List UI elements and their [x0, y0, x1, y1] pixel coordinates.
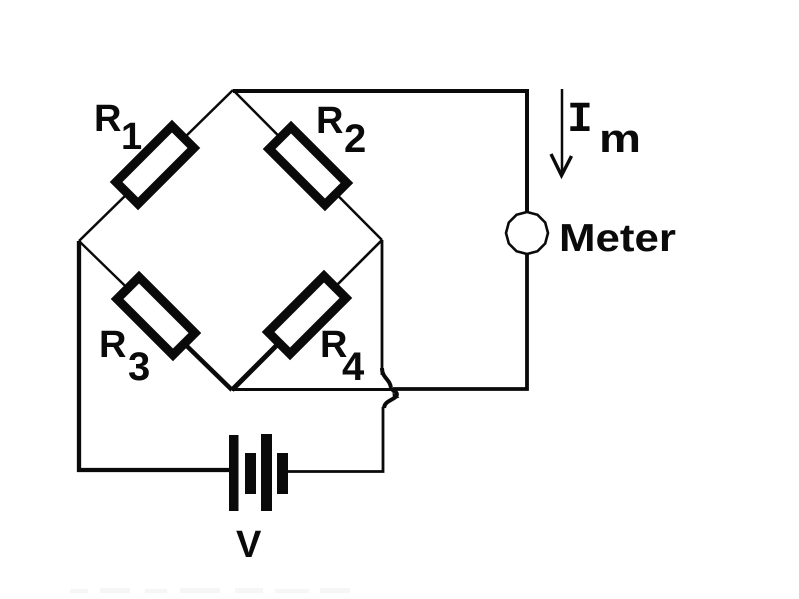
- wire: meter bottom down and left to crossing: [393, 254, 527, 389]
- wire: diamond edge bottom node to R4: [232, 315, 307, 390]
- svg-text:R: R: [94, 98, 121, 140]
- resistor R2: [269, 127, 347, 205]
- svg-text:V: V: [236, 524, 262, 566]
- battery V plate 4 (short): [277, 453, 288, 494]
- svg-text:4: 4: [342, 345, 365, 389]
- svg-text:Meter: Meter: [559, 217, 676, 260]
- faint watermark remnant at bottom: [70, 588, 350, 593]
- current arrow Im: [561, 89, 564, 172]
- wire: right node down to crossing: [381, 240, 384, 375]
- wire: battery left terminal to left node: [79, 241, 229, 470]
- wire: diamond edge left node to R3: [79, 241, 156, 316]
- meter M1: [506, 212, 548, 254]
- resistor R3: [117, 277, 195, 355]
- resistor R1: [116, 126, 194, 204]
- battery V plate 2 (short): [245, 453, 256, 494]
- wire: bottom node to crossing (meter branch): [232, 388, 394, 391]
- svg-text:m: m: [599, 117, 641, 161]
- battery V plate 3 (long): [261, 434, 272, 511]
- resistor R4: [268, 276, 346, 354]
- svg-text:1: 1: [121, 116, 142, 158]
- svg-text:R: R: [99, 324, 126, 366]
- wire: diamond edge top node to left node: [79, 90, 233, 241]
- svg-text:2: 2: [344, 117, 366, 161]
- wire: top node to meter (top horizontal + right vertical): [233, 91, 527, 212]
- battery V plate 1 (long): [229, 435, 239, 511]
- wire: diamond edge R3 to bottom node: [156, 316, 232, 390]
- svg-text:I: I: [567, 95, 593, 144]
- wire: diamond edge top node to right node: [233, 90, 382, 240]
- wire: crossing down to battery right terminal: [288, 407, 383, 472]
- svg-text:R: R: [316, 100, 343, 142]
- wire: diamond edge R4 to right node: [307, 240, 382, 315]
- svg-text:3: 3: [128, 345, 150, 389]
- wire hop (squiggle) at crossing: [382, 368, 391, 388]
